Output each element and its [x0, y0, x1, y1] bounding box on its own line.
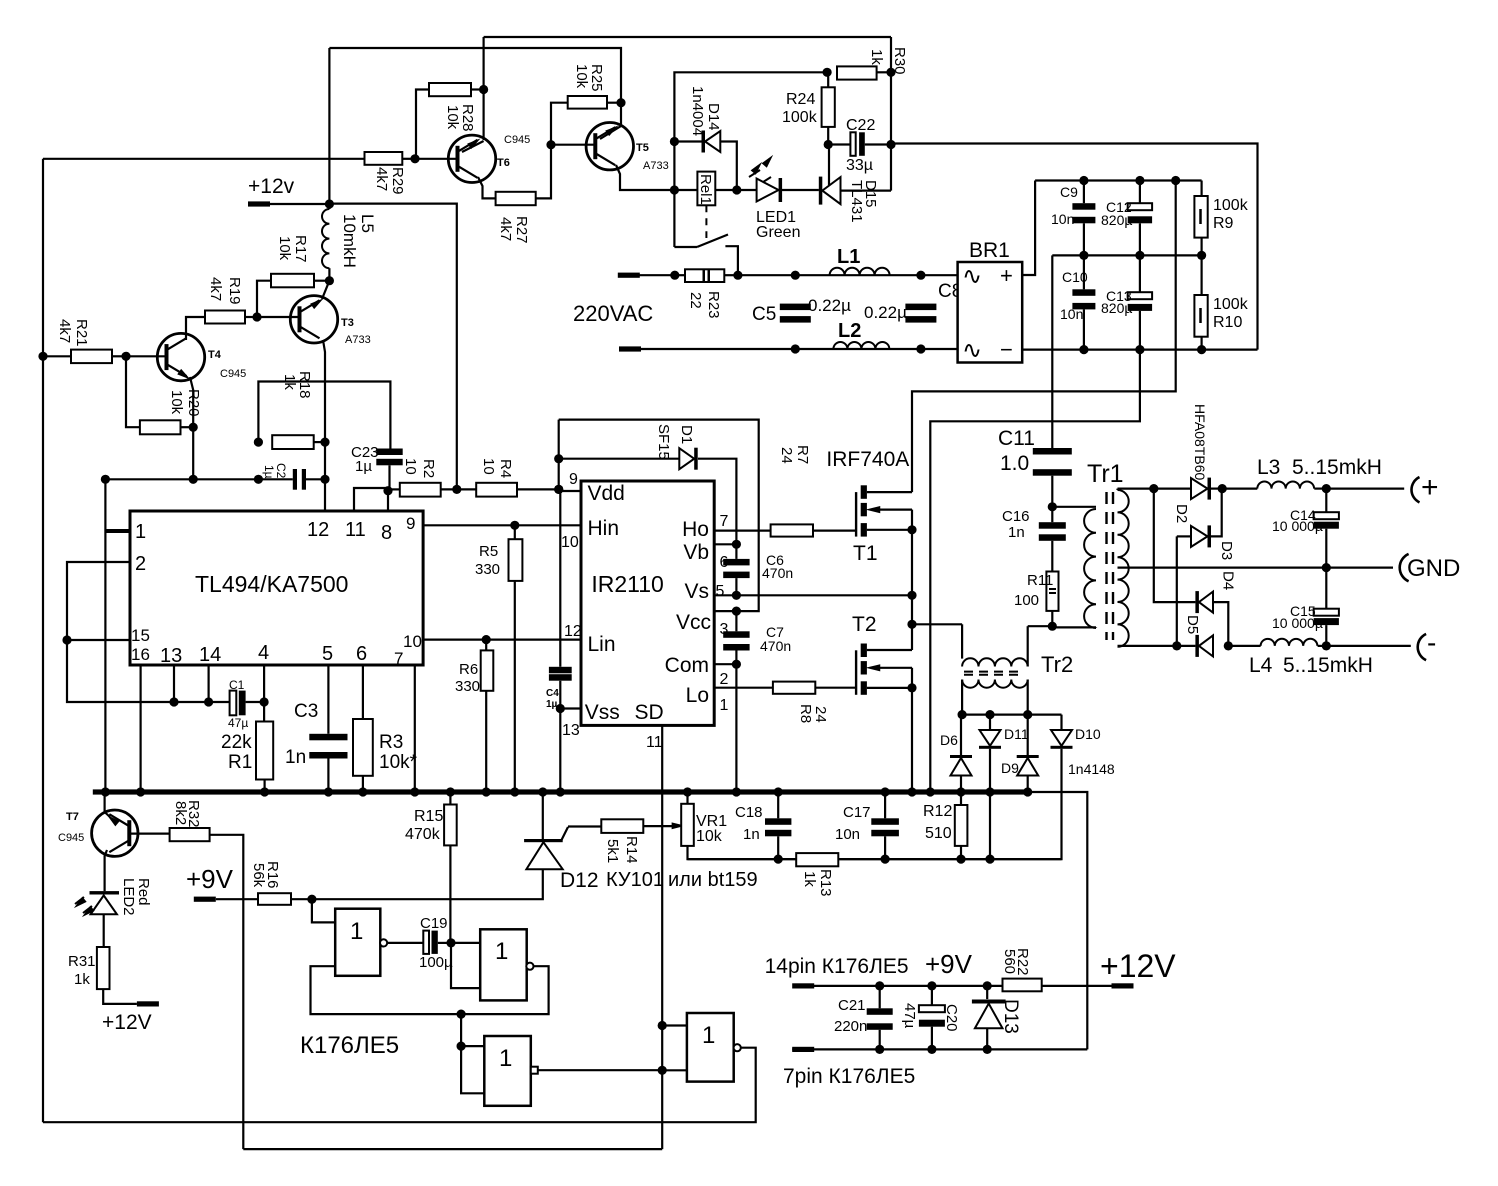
svg-text:D1: D1	[678, 425, 695, 444]
svg-text:L5: L5	[358, 214, 377, 233]
svg-text:2: 2	[135, 553, 146, 575]
svg-text:Vcc: Vcc	[676, 611, 711, 634]
svg-text:1: 1	[495, 938, 508, 965]
svg-text:Vb: Vb	[683, 541, 709, 564]
resistor R6 330	[485, 640, 487, 651]
resistor R4 10	[476, 483, 517, 497]
node C21 bottom	[875, 1045, 884, 1054]
wire mid-rail to C11	[1051, 255, 1053, 448]
svg-text:7pin К176ЛЕ5: 7pin К176ЛЕ5	[783, 1065, 915, 1088]
svg-text:КУ101: КУ101	[606, 869, 664, 891]
svg-text:1n: 1n	[1008, 524, 1025, 541]
svg-text:10k: 10k	[444, 105, 461, 130]
svg-text:+12v: +12v	[248, 175, 295, 198]
wire pin12 column	[324, 442, 326, 511]
mosfet T1 IRF740A	[855, 492, 857, 536]
relay coil Rel1	[674, 189, 697, 191]
svg-text:24: 24	[812, 706, 829, 723]
fusible resistor R23 22	[685, 269, 724, 282]
svg-text:D9: D9	[1001, 760, 1019, 776]
wire pin 2 stub	[67, 562, 230, 702]
node T5 base	[546, 140, 555, 149]
resistor R14 5k1	[601, 819, 643, 833]
svg-text:13: 13	[160, 645, 182, 667]
svg-text:C18: C18	[735, 804, 763, 821]
capacitor C2 1u	[258, 478, 292, 480]
node R10 bottom	[1197, 345, 1206, 354]
thyristor D12 KU101	[542, 792, 544, 839]
svg-text:9: 9	[406, 514, 415, 533]
capacitor C21 220n	[879, 986, 881, 1008]
inductor L3 5..15mkH	[1257, 482, 1314, 489]
transistor T6 (C945)	[448, 135, 495, 182]
svg-text:Green: Green	[756, 224, 800, 241]
svg-text:T4: T4	[208, 349, 222, 361]
svg-text:470k: 470k	[405, 826, 441, 843]
svg-text:510: 510	[925, 825, 952, 842]
wire BR1 plus output	[1022, 181, 1035, 276]
svg-text:+9V: +9V	[925, 949, 973, 979]
node Com	[732, 660, 741, 669]
node pin14	[204, 697, 213, 706]
node L3/C14	[1322, 484, 1331, 493]
svg-text:∿: ∿	[962, 263, 982, 290]
svg-text:R5: R5	[479, 543, 498, 560]
+12V terminal (LED2 return)	[137, 1001, 159, 1006]
wire Tr1 sec bottom to D5 row	[1118, 645, 1196, 647]
diode D3	[1177, 535, 1191, 537]
svg-text:D12: D12	[560, 869, 599, 892]
svg-text:4k7: 4k7	[207, 277, 224, 301]
wire pin13 stub	[173, 665, 175, 702]
svg-text:5k1: 5k1	[604, 839, 621, 863]
node D14 right / Rel1 right	[732, 185, 741, 194]
node R16 right	[307, 895, 316, 904]
node C8 top	[916, 271, 925, 280]
resistor R27	[496, 192, 536, 205]
wire gate B input bracket	[451, 943, 480, 988]
svg-text:10k: 10k	[168, 390, 185, 415]
node D13 bottom	[983, 1045, 992, 1054]
transformer Tr1 secondary	[1118, 490, 1129, 647]
svg-text:BR1: BR1	[969, 239, 1010, 262]
svg-text:220VAC: 220VAC	[573, 301, 653, 326]
svg-text:D3: D3	[1218, 541, 1235, 560]
svg-text:1µ: 1µ	[262, 465, 276, 479]
wire sense row	[885, 858, 1061, 860]
wire drop to T1 drain rail	[912, 181, 1176, 493]
wire feedback to output minus rail	[891, 144, 1258, 350]
svg-text:6: 6	[356, 643, 367, 665]
svg-text:или bt159: или bt159	[668, 869, 758, 891]
resistor R13 1k	[796, 853, 838, 866]
wire top DC rail	[1035, 179, 1202, 181]
svg-text:R11: R11	[1027, 572, 1053, 589]
node C17 bottom	[881, 855, 890, 864]
svg-text:LED2: LED2	[120, 878, 137, 916]
node C9 top	[1079, 176, 1088, 185]
+9V terminal	[194, 897, 216, 902]
wire bus extension to +12V cell ground	[1030, 792, 1087, 1049]
svg-text:+12V: +12V	[102, 1011, 152, 1034]
resistor R17	[271, 274, 314, 288]
svg-text:−: −	[1000, 337, 1013, 362]
node R18 right / T3 emitter / pin12 column	[320, 438, 329, 447]
wire pin 1 stub (thick)	[105, 529, 130, 533]
wire to gate C inputs	[460, 1014, 462, 1046]
node L5/R17/T3-collector	[325, 276, 334, 285]
svg-text:C4: C4	[546, 688, 559, 699]
wire Tr2 secondary row	[962, 713, 1061, 715]
capacitor C8 0.22u	[905, 304, 936, 311]
wire D3-D5 column	[1176, 536, 1178, 646]
wire drop x=1139.9 to T2-source rail	[930, 350, 1140, 792]
wire T6 collector	[483, 37, 485, 140]
svg-text:C1: C1	[229, 678, 245, 692]
wire R30-left feedback column	[674, 72, 827, 247]
wire R18 top loop	[258, 382, 390, 450]
node T5 collector / R25	[616, 98, 625, 107]
svg-text:1: 1	[499, 1045, 512, 1072]
wire Lo to R8	[714, 687, 773, 689]
svg-text:470n: 470n	[760, 638, 791, 654]
wire pin1 column to ground bus	[104, 479, 106, 792]
node R9 bottom	[1197, 251, 1206, 260]
svg-text:4: 4	[258, 642, 269, 664]
resistor R10 100k	[1200, 255, 1202, 295]
diode D9	[1017, 755, 1039, 758]
svg-text:R10: R10	[1213, 314, 1242, 331]
transformer Tr2 core	[964, 671, 1023, 673]
svg-text:-: -	[1427, 627, 1436, 658]
inductor L5 10mkH	[322, 209, 329, 268]
svg-text:D11: D11	[1004, 726, 1029, 742]
capacitor C7 470n	[735, 611, 737, 631]
svg-text:1: 1	[702, 1022, 715, 1049]
resistor R25	[568, 96, 607, 109]
plus output terminal	[1411, 477, 1419, 502]
wire Tr1 sec top to D2	[1118, 488, 1192, 490]
wire top bus y=37 (T6 collector to R30)	[484, 36, 891, 38]
svg-text:14pin К176ЛЕ5: 14pin К176ЛЕ5	[765, 955, 909, 978]
wire R32/SD bottom link	[243, 1148, 662, 1150]
wire to minus terminal	[1326, 645, 1411, 647]
svg-text:100k: 100k	[782, 109, 818, 126]
wire right column x=891	[890, 37, 892, 191]
svg-text:56k: 56k	[250, 863, 267, 888]
resistor R19	[205, 311, 245, 324]
svg-text:R4: R4	[497, 459, 514, 478]
wire +9V row to D12 cathode return	[312, 869, 543, 899]
svg-text:10: 10	[403, 632, 422, 651]
wire +12v to R2/R4 node	[329, 204, 456, 490]
transformer Tr2 secondary	[962, 680, 1028, 688]
capacitor C13 820u	[1139, 255, 1141, 292]
svg-text:D5: D5	[1184, 615, 1201, 634]
svg-text:Lin: Lin	[588, 633, 616, 656]
svg-text:R29: R29	[389, 167, 406, 195]
inductor L4 5..15mkH	[1261, 639, 1318, 646]
transformer Tr2 primary	[962, 658, 1028, 666]
node pin13	[169, 697, 178, 706]
220VAC terminal lower	[619, 346, 641, 351]
svg-text:10: 10	[480, 458, 497, 475]
svg-text:D15: D15	[862, 180, 879, 208]
svg-text:10: 10	[561, 534, 579, 551]
LED2 Red	[90, 891, 120, 894]
svg-text:C945: C945	[58, 832, 84, 844]
capacitor C5 0.22u	[780, 304, 811, 311]
node L4/C15	[1322, 641, 1331, 650]
7pin terminal	[792, 1047, 814, 1052]
svg-text:13: 13	[562, 722, 580, 739]
node C5 top	[791, 271, 800, 280]
node T6 collector / R28	[479, 85, 488, 94]
svg-text:C5: C5	[752, 304, 776, 325]
node GND row	[1322, 563, 1331, 572]
svg-text:C9: C9	[1060, 184, 1078, 200]
wire bottom return row	[792, 1048, 1087, 1050]
svg-text:SD: SD	[635, 701, 664, 724]
capacitor C18 1n	[777, 792, 779, 818]
svg-text:C17: C17	[843, 804, 871, 821]
svg-text:22k: 22k	[221, 732, 252, 753]
svg-text:D14: D14	[705, 103, 722, 131]
svg-text:10n: 10n	[1051, 211, 1074, 227]
IC TL494/KA7500	[130, 511, 423, 665]
wire to plus terminal	[1326, 488, 1404, 490]
resistor R29	[365, 152, 403, 165]
capacitor C19 100u	[387, 942, 423, 944]
svg-text:10 000µ: 10 000µ	[1272, 615, 1323, 631]
svg-text:1: 1	[135, 521, 146, 543]
wire pin10 to Lin	[423, 638, 581, 640]
svg-text:820µ: 820µ	[1101, 212, 1132, 228]
wire T2 source to bus	[911, 688, 913, 792]
diode D4	[1195, 591, 1199, 613]
svg-text:TL494/KA7500: TL494/KA7500	[195, 571, 348, 597]
wire gate A input 1	[312, 899, 335, 922]
diode D11	[980, 730, 1001, 746]
node C9 bottom mid-rail	[1079, 251, 1088, 260]
svg-text:10mkH: 10mkH	[340, 214, 359, 268]
svg-text:IRF740A: IRF740A	[826, 448, 909, 471]
svg-text:Rel1: Rel1	[697, 174, 714, 205]
svg-text:+: +	[1000, 263, 1013, 288]
node D11 top	[985, 710, 994, 719]
node pin1-column top	[101, 475, 110, 484]
capacitor C20 47u	[931, 986, 933, 1005]
svg-text:C20: C20	[943, 1004, 960, 1032]
node D11 bottom	[985, 855, 994, 864]
node feedback/gate C	[457, 1010, 466, 1019]
wire T5 base	[551, 144, 596, 146]
svg-text:100k: 100k	[1213, 197, 1249, 214]
wire gate B output feedback	[311, 966, 549, 1014]
wire gate D output to left rail	[43, 1048, 756, 1123]
svg-text:7: 7	[720, 513, 729, 530]
wire AC upper row	[738, 274, 958, 276]
svg-text:1k: 1k	[281, 374, 298, 390]
svg-text:820µ: 820µ	[1101, 300, 1132, 316]
svg-text:0.22µ: 0.22µ	[808, 296, 851, 315]
svg-text:5: 5	[322, 643, 333, 665]
wire Vss stub	[560, 707, 581, 709]
capacitor C4 1u	[559, 489, 561, 666]
svg-text:C21: C21	[838, 997, 866, 1014]
wire half-bridge midpoint column	[911, 530, 913, 650]
svg-text:1: 1	[350, 918, 363, 945]
svg-text:47µ: 47µ	[228, 716, 248, 730]
node D1 anode	[554, 454, 563, 463]
transistor T7 (C945)	[92, 810, 138, 856]
diode D5	[1195, 635, 1199, 657]
svg-text:330: 330	[455, 678, 480, 695]
capacitor C1 47u	[230, 691, 237, 716]
inductor L2	[833, 342, 889, 349]
relay dashed link	[705, 205, 707, 238]
+12V input terminal	[1112, 983, 1134, 988]
svg-text:R9: R9	[1213, 215, 1234, 232]
resistor R3 10k*	[362, 665, 364, 719]
svg-text:10k: 10k	[276, 236, 293, 261]
node D13 top	[983, 981, 992, 990]
svg-text:4k7: 4k7	[497, 217, 514, 241]
node R30 right	[886, 68, 895, 77]
svg-text:Tr1: Tr1	[1087, 460, 1124, 488]
node R23 right	[733, 271, 742, 280]
ground bus	[93, 789, 1031, 794]
LED1 Green	[751, 162, 763, 175]
svg-text:T5: T5	[636, 142, 649, 154]
svg-text:100µ: 100µ	[419, 954, 453, 971]
svg-text:T1: T1	[853, 542, 878, 565]
minus output terminal	[1418, 634, 1426, 660]
wire Ho to R7	[714, 529, 770, 531]
node R5 top	[510, 521, 519, 530]
wire half-bridge mid to Tr2 primary	[912, 623, 962, 625]
svg-text:Hin: Hin	[588, 517, 620, 540]
potentiometer VR1 10k	[686, 792, 688, 804]
svg-text:T7: T7	[66, 811, 79, 823]
resistor R21	[71, 350, 112, 364]
node R11 bottom / Tr2-Tr1 link	[1048, 622, 1057, 631]
svg-text:1n: 1n	[743, 826, 760, 843]
svg-text:R17: R17	[292, 235, 309, 263]
svg-text:R23: R23	[705, 291, 722, 319]
svg-text:T6: T6	[497, 157, 510, 169]
node +12v	[325, 199, 334, 208]
svg-text:+12V: +12V	[1100, 948, 1176, 984]
node T6 base	[410, 154, 419, 163]
svg-text:R2: R2	[420, 459, 437, 478]
svg-text:7: 7	[394, 649, 403, 668]
wire Vs to half-bridge midpoint	[714, 594, 912, 596]
node gate D input 1	[658, 1021, 667, 1030]
svg-text:Ho: Ho	[682, 518, 709, 541]
svg-text:R24: R24	[786, 91, 815, 108]
svg-text:9: 9	[569, 471, 578, 488]
svg-text:1k: 1k	[74, 971, 90, 988]
node C19/R15/gateB	[446, 938, 455, 947]
node C5 bottom	[791, 344, 800, 353]
wire pin1 feedback wire	[105, 478, 258, 480]
wire pin 15 stub	[67, 639, 130, 641]
node C20 bottom	[927, 1045, 936, 1054]
wire Tr1 center tap / GND row	[1118, 566, 1394, 568]
svg-text:GND: GND	[1407, 555, 1460, 582]
capacitor C15 10000u	[1325, 568, 1327, 609]
capacitor C14 10000u	[1325, 489, 1327, 513]
relay switch contact	[674, 246, 697, 248]
svg-text:A733: A733	[345, 334, 371, 346]
svg-text:T3: T3	[341, 317, 354, 329]
svg-text:12: 12	[307, 519, 329, 541]
svg-text:10 000µ: 10 000µ	[1272, 518, 1323, 534]
logic gate 1 (K176LE5 C)	[484, 1036, 531, 1106]
logic gate 1 (K176LE5 A)	[335, 909, 380, 976]
svg-text:1µ: 1µ	[355, 458, 372, 475]
svg-text:22: 22	[687, 292, 704, 309]
wire Vb stub	[714, 543, 736, 545]
node D14 left	[670, 137, 679, 146]
svg-text:1k: 1k	[801, 871, 818, 887]
svg-text:16: 16	[131, 645, 150, 664]
resistor R18 1k	[272, 435, 314, 449]
svg-text:D13: D13	[1000, 999, 1021, 1034]
node Vdd	[554, 485, 563, 494]
node after D2	[1218, 484, 1227, 493]
svg-text:R21: R21	[73, 319, 90, 347]
capacitor C6 470n	[735, 544, 737, 559]
node R2 left / pin8	[383, 486, 392, 495]
svg-text:0.22µ: 0.22µ	[864, 303, 907, 322]
resistor R5 330	[514, 525, 516, 539]
node R12 bottom	[956, 855, 965, 864]
svg-text:10k: 10k	[573, 64, 590, 89]
svg-text:R7: R7	[794, 445, 811, 464]
svg-text:220n: 220n	[834, 1018, 867, 1035]
node C2 right	[320, 475, 329, 484]
node C21 top	[875, 981, 884, 990]
zener D13	[986, 986, 988, 999]
svg-text:R20: R20	[185, 389, 202, 417]
resistor R1 22k	[263, 702, 265, 722]
node top rail x=1175.7	[1171, 176, 1180, 185]
svg-text:Com: Com	[665, 654, 709, 677]
+12v supply terminal	[248, 201, 270, 206]
node C10 bottom	[1079, 345, 1088, 354]
svg-text:T2: T2	[852, 613, 877, 636]
wire Com to ground bus	[735, 664, 737, 792]
wire pin4 stub	[263, 665, 265, 702]
svg-text:5..15mkH: 5..15mkH	[1283, 654, 1373, 677]
node R19/R17/T3-base junction	[252, 312, 261, 321]
svg-text:100k: 100k	[1213, 296, 1249, 313]
node Vs	[732, 591, 741, 600]
logic gate 1 (K176LE5 B)	[480, 929, 527, 1000]
svg-text:К176ЛЕ5: К176ЛЕ5	[300, 1032, 399, 1059]
resistor R24	[822, 87, 835, 127]
resistor R9 100k	[1200, 181, 1202, 197]
bridge rectifier BR1	[958, 262, 1023, 363]
svg-text:5: 5	[716, 583, 725, 600]
svg-text:1n4004: 1n4004	[689, 86, 706, 136]
transformer Tr1 core	[1105, 492, 1107, 640]
svg-text:2: 2	[720, 671, 729, 688]
svg-text:R15: R15	[414, 808, 443, 825]
svg-text:10k*: 10k*	[379, 752, 418, 773]
